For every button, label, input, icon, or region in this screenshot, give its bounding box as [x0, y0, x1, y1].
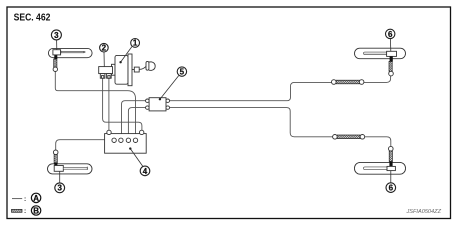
- svg-text:2: 2: [102, 44, 107, 53]
- svg-text:B: B: [33, 206, 39, 215]
- svg-text:6: 6: [389, 184, 394, 193]
- svg-text::: :: [24, 196, 26, 203]
- svg-text:4: 4: [143, 167, 148, 176]
- svg-text:1: 1: [133, 39, 138, 48]
- svg-text:6: 6: [388, 30, 393, 39]
- svg-text:SEC. 462: SEC. 462: [14, 13, 51, 24]
- svg-text:3: 3: [54, 31, 59, 40]
- svg-text::: :: [24, 208, 26, 215]
- svg-text:JSFIA0504ZZ: JSFIA0504ZZ: [405, 209, 441, 215]
- svg-text:A: A: [33, 194, 39, 203]
- svg-text:5: 5: [180, 68, 185, 77]
- svg-text:3: 3: [57, 184, 62, 193]
